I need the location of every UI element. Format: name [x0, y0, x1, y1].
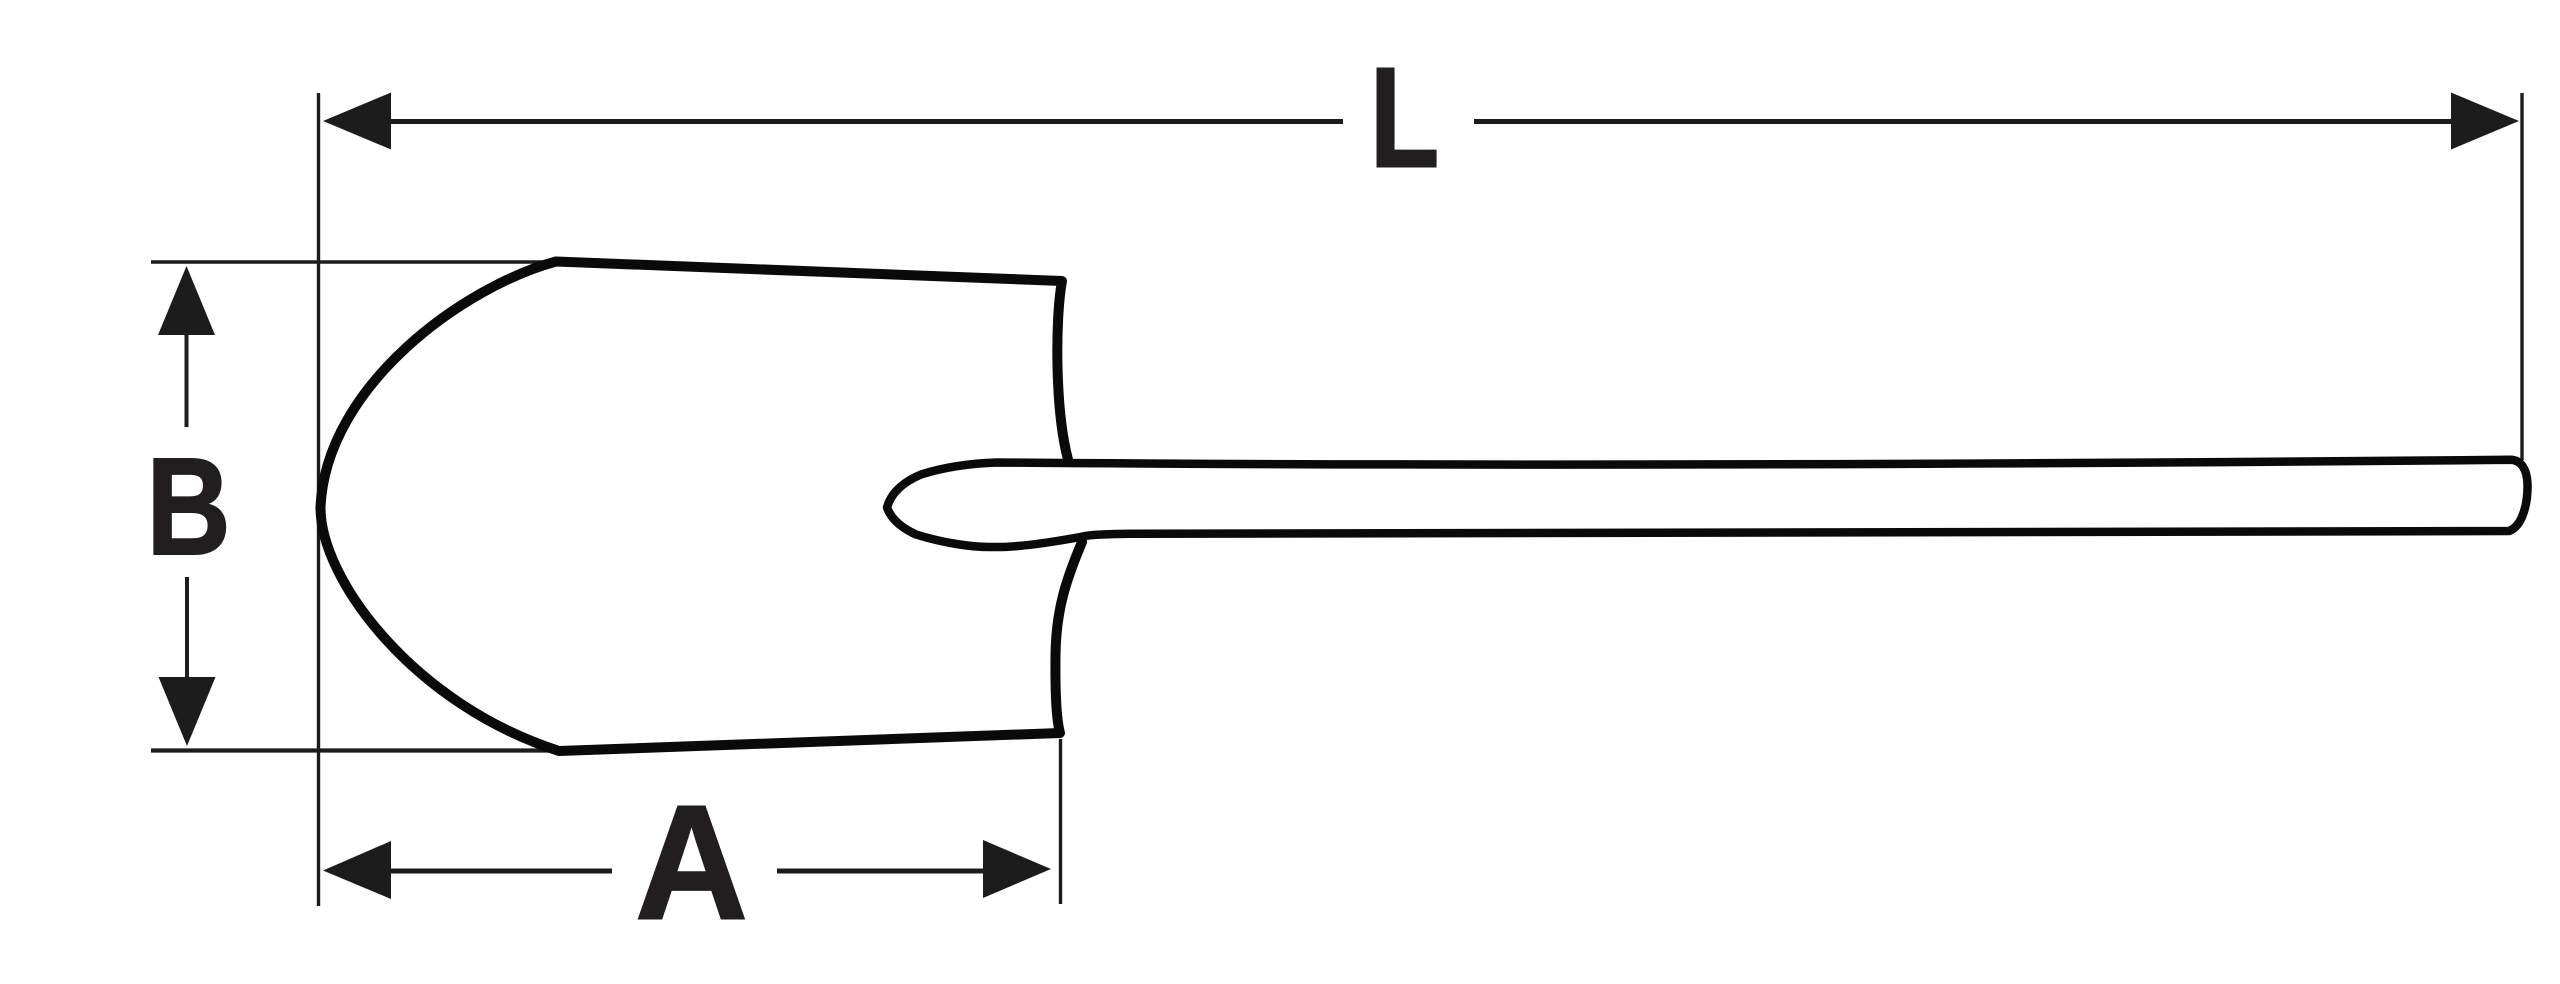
- dimension L line: [388, 119, 2453, 124]
- dimension A left arrowhead: [323, 841, 391, 899]
- extension line horizontal bottom (blade bottom): [151, 748, 640, 752]
- extension line horizontal top (blade top): [151, 260, 558, 263]
- dimension B down arrow: [185, 577, 189, 677]
- svg-text:A: A: [635, 772, 748, 954]
- dimension A right arrowhead: [983, 840, 1051, 898]
- dimension B up arrow: [158, 266, 215, 335]
- dimension A line: [390, 869, 984, 874]
- dimension L left arrowhead: [323, 93, 391, 150]
- svg-text:B: B: [146, 430, 230, 584]
- extension line vertical A-right (blade bottom corner): [1059, 739, 1062, 904]
- svg-text:L: L: [1370, 38, 1440, 197]
- extension line vertical right (handle end): [2520, 93, 2523, 460]
- shovel handle/shaft with pointed ferrule tip: [887, 460, 2528, 547]
- shovel blade outline: [320, 262, 1082, 752]
- dimension L right arrowhead: [2451, 93, 2519, 150]
- extension line vertical left (blade tip): [317, 93, 320, 906]
